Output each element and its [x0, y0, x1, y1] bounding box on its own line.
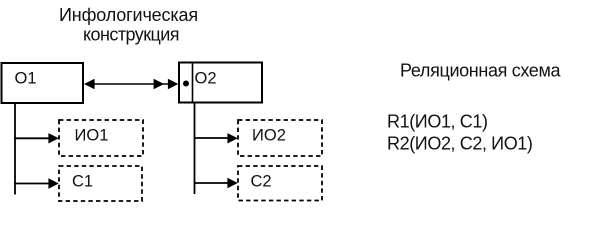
entity box О1 — [2, 63, 84, 103]
dashed box ИО1 — [59, 120, 143, 156]
wire: arrow to ИО1 — [14, 133, 59, 143]
svg-text:ИО1: ИО1 — [75, 127, 109, 145]
wire: arrow to ИО2 — [194, 133, 238, 143]
svg-text:С1: С1 — [72, 173, 93, 191]
svg-text:R1(ИО1, С1): R1(ИО1, С1) — [387, 111, 488, 131]
title: Инфологическая конструкция — [59, 5, 198, 45]
svg-text:О1: О1 — [15, 70, 37, 88]
svg-text:конструкция: конструкция — [83, 25, 179, 45]
dashed box С1 — [59, 166, 142, 201]
svg-text:О2: О2 — [195, 70, 217, 88]
svg-text:Реляционная схема: Реляционная схема — [400, 61, 561, 81]
svg-text:Инфологическая: Инфологическая — [59, 5, 198, 25]
wire: stem from О2 — [194, 103, 196, 195]
svg-text:С2: С2 — [251, 173, 272, 191]
divider in О2 — [192, 63, 194, 103]
key dot in О2 — [183, 81, 189, 87]
dashed box ИО2 — [238, 120, 322, 156]
dashed box С2 — [238, 166, 322, 201]
svg-text:ИО2: ИО2 — [252, 127, 286, 145]
wire: arrow to С2 — [194, 178, 238, 188]
wire: double arrow between О1 and О2 — [84, 79, 178, 89]
svg-text:R2(ИО2, С2, ИО1): R2(ИО2, С2, ИО1) — [387, 133, 533, 153]
wire: arrow to С1 — [14, 178, 59, 188]
entity box О2 — [179, 63, 262, 103]
wire: stem from О1 — [14, 103, 16, 195]
